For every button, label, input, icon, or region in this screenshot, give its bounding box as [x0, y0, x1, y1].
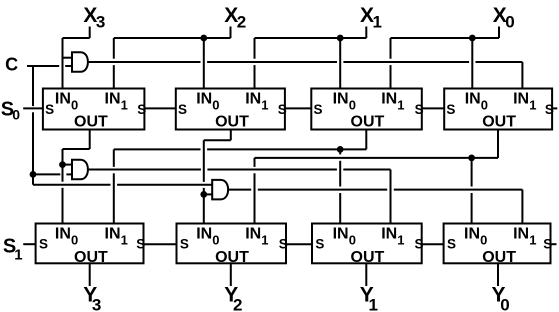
- svg-text:S: S: [543, 237, 552, 252]
- svg-text:1: 1: [529, 97, 536, 112]
- svg-text:IN: IN: [513, 91, 529, 108]
- svg-text:1: 1: [373, 12, 382, 31]
- svg-text:S: S: [180, 237, 189, 252]
- svg-text:S: S: [45, 102, 54, 117]
- svg-text:S: S: [415, 102, 424, 117]
- svg-text:S: S: [278, 102, 287, 117]
- svg-text:OUT: OUT: [215, 113, 249, 130]
- svg-text:1: 1: [121, 232, 128, 247]
- svg-text:S: S: [136, 237, 145, 252]
- svg-text:IN: IN: [333, 91, 349, 108]
- svg-text:3: 3: [92, 295, 101, 312]
- svg-text:IN: IN: [196, 226, 212, 243]
- svg-text:S: S: [415, 237, 424, 252]
- svg-text:S: S: [314, 102, 323, 117]
- svg-text:S: S: [279, 237, 288, 252]
- svg-text:S: S: [447, 237, 456, 252]
- svg-text:IN: IN: [105, 91, 121, 108]
- svg-text:0: 0: [349, 97, 356, 112]
- svg-text:0: 0: [349, 232, 356, 247]
- svg-text:OUT: OUT: [482, 113, 516, 130]
- svg-text:S: S: [315, 237, 324, 252]
- svg-text:IN: IN: [381, 91, 397, 108]
- svg-text:1: 1: [397, 232, 404, 247]
- svg-text:S: S: [137, 102, 146, 117]
- svg-text:OUT: OUT: [482, 249, 516, 266]
- svg-text:2: 2: [233, 295, 242, 312]
- svg-text:S: S: [446, 102, 455, 117]
- svg-text:1: 1: [397, 97, 404, 112]
- svg-text:IN: IN: [55, 91, 71, 108]
- svg-text:IN: IN: [381, 226, 397, 243]
- svg-text:OUT: OUT: [215, 249, 249, 266]
- svg-text:1: 1: [14, 247, 22, 264]
- svg-text:S: S: [178, 102, 187, 117]
- svg-text:1: 1: [261, 232, 268, 247]
- svg-text:IN: IN: [513, 226, 529, 243]
- svg-text:OUT: OUT: [351, 113, 385, 130]
- svg-text:IN: IN: [196, 91, 212, 108]
- svg-text:S: S: [545, 102, 554, 117]
- svg-text:IN: IN: [55, 226, 71, 243]
- svg-text:0: 0: [71, 232, 78, 247]
- svg-text:3: 3: [96, 12, 105, 31]
- svg-text:OUT: OUT: [74, 113, 108, 130]
- svg-text:1: 1: [261, 97, 268, 112]
- svg-text:IN: IN: [333, 226, 349, 243]
- svg-text:OUT: OUT: [351, 249, 385, 266]
- svg-text:1: 1: [369, 295, 378, 312]
- svg-text:IN: IN: [245, 91, 261, 108]
- svg-text:0: 0: [212, 97, 219, 112]
- svg-text:0: 0: [500, 295, 509, 312]
- svg-text:0: 0: [12, 107, 20, 123]
- svg-text:0: 0: [481, 97, 488, 112]
- svg-text:0: 0: [480, 232, 487, 247]
- svg-text:0: 0: [71, 97, 78, 112]
- svg-text:1: 1: [529, 232, 536, 247]
- svg-text:IN: IN: [105, 226, 121, 243]
- svg-text:IN: IN: [465, 91, 481, 108]
- svg-text:0: 0: [505, 12, 514, 31]
- svg-text:1: 1: [121, 97, 128, 112]
- svg-text:C: C: [5, 55, 18, 75]
- svg-text:2: 2: [237, 12, 246, 31]
- svg-text:OUT: OUT: [74, 249, 108, 266]
- svg-text:S: S: [39, 237, 48, 252]
- svg-text:IN: IN: [245, 226, 261, 243]
- svg-text:0: 0: [212, 232, 219, 247]
- svg-text:IN: IN: [464, 226, 480, 243]
